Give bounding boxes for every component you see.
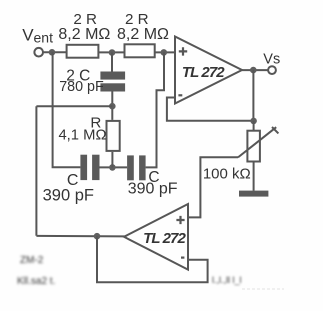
svg-text:ZM-2: ZM-2 (20, 255, 44, 266)
wire node B down to capacitor 2C (111, 53, 113, 72)
svg-text:8,2 MΩ: 8,2 MΩ (58, 26, 110, 43)
svg-text:V: V (22, 26, 34, 45)
ground (239, 191, 268, 197)
wire U2 feedback loop (97, 236, 208, 282)
wire node D left (bootstrap branch) (36, 105, 112, 107)
capacitor 2C plate 2 (100, 83, 125, 91)
svg-text:TL 272: TL 272 (143, 230, 186, 247)
svg-text:ent: ent (34, 30, 54, 46)
wire R2 to op-amp plus input (155, 51, 175, 53)
potentiometer P1 wiper arrow (238, 127, 276, 157)
faint dotted line right (242, 288, 284, 290)
wire Vent to R1 (43, 51, 66, 53)
wire right C up to op-amp plus node (146, 52, 164, 167)
potentiometer P1 arrow tip bar (272, 127, 278, 133)
svg-text:Vs: Vs (263, 52, 280, 68)
potentiometer P1 (100 k) body (247, 131, 260, 162)
svg-text:390 pF: 390 pF (43, 187, 94, 205)
svg-text:780 pF: 780 pF (59, 79, 104, 95)
resistor R2 (2R 8,2 M) body (125, 44, 155, 57)
resistor R (4,1 M) body (107, 121, 120, 151)
svg-text:8,2 MΩ: 8,2 MΩ (117, 26, 169, 43)
svg-text:Kll.sa2 t.: Kll.sa2 t. (17, 276, 55, 287)
capacitor C right plate 1 (127, 155, 134, 180)
capacitor 2C plate 1 (100, 72, 125, 80)
output terminal Vs (268, 66, 276, 74)
U1 minus sign (178, 94, 182, 96)
node E (twin-T midpoint) (109, 164, 116, 171)
wire bottom op-amp output bus (36, 235, 124, 238)
wire input vertical to left capacitor C (53, 52, 81, 167)
U2 plus sign (176, 216, 184, 224)
node D (2C bottom / R top / bootstrap) (109, 103, 116, 110)
wire pot bottom to ground (253, 162, 255, 191)
wire R bottom to node E (111, 152, 113, 168)
capacitor C right plate 2 (139, 155, 146, 180)
op-amp U2 triangle (124, 204, 188, 270)
wire wiper to bottom op-amp plus input (188, 157, 238, 217)
svg-text:l.,l.,ll l_l: l.,l.,ll l_l (212, 275, 242, 285)
svg-text:100 kΩ: 100 kΩ (203, 166, 251, 183)
node F (output node) (250, 67, 257, 74)
node G (pot top) (250, 118, 257, 125)
svg-text:4,1 MΩ: 4,1 MΩ (58, 128, 106, 144)
node B (between R1 R2) (109, 49, 116, 56)
capacitor C left plate 2 (92, 155, 99, 180)
wire pot top lead (253, 121, 255, 131)
svg-text:TL 272: TL 272 (182, 64, 225, 81)
svg-text:390 pF: 390 pF (128, 181, 178, 198)
capacitor C left plate 1 (80, 155, 87, 180)
wire output down to pot (252, 70, 254, 121)
wire 2C to node D and resistor R top (111, 92, 113, 120)
input terminal Vent (34, 48, 43, 57)
op-amp U1 triangle (175, 37, 242, 104)
U2 minus sign (181, 257, 184, 259)
wire U1 output to Vs (242, 69, 268, 71)
wire U1 feedback to minus input (167, 98, 254, 121)
node C (op-amp plus node) (161, 49, 168, 56)
wire R1 to R2 (99, 51, 125, 53)
node H (U2 output) (94, 233, 101, 240)
wire left C to node E to right C (100, 166, 128, 168)
U1 plus sign (179, 47, 187, 55)
node A (input junction) (49, 49, 56, 56)
wire bootstrap vertical (35, 106, 37, 235)
resistor R1 (2R 8,2 M) body (67, 45, 99, 58)
